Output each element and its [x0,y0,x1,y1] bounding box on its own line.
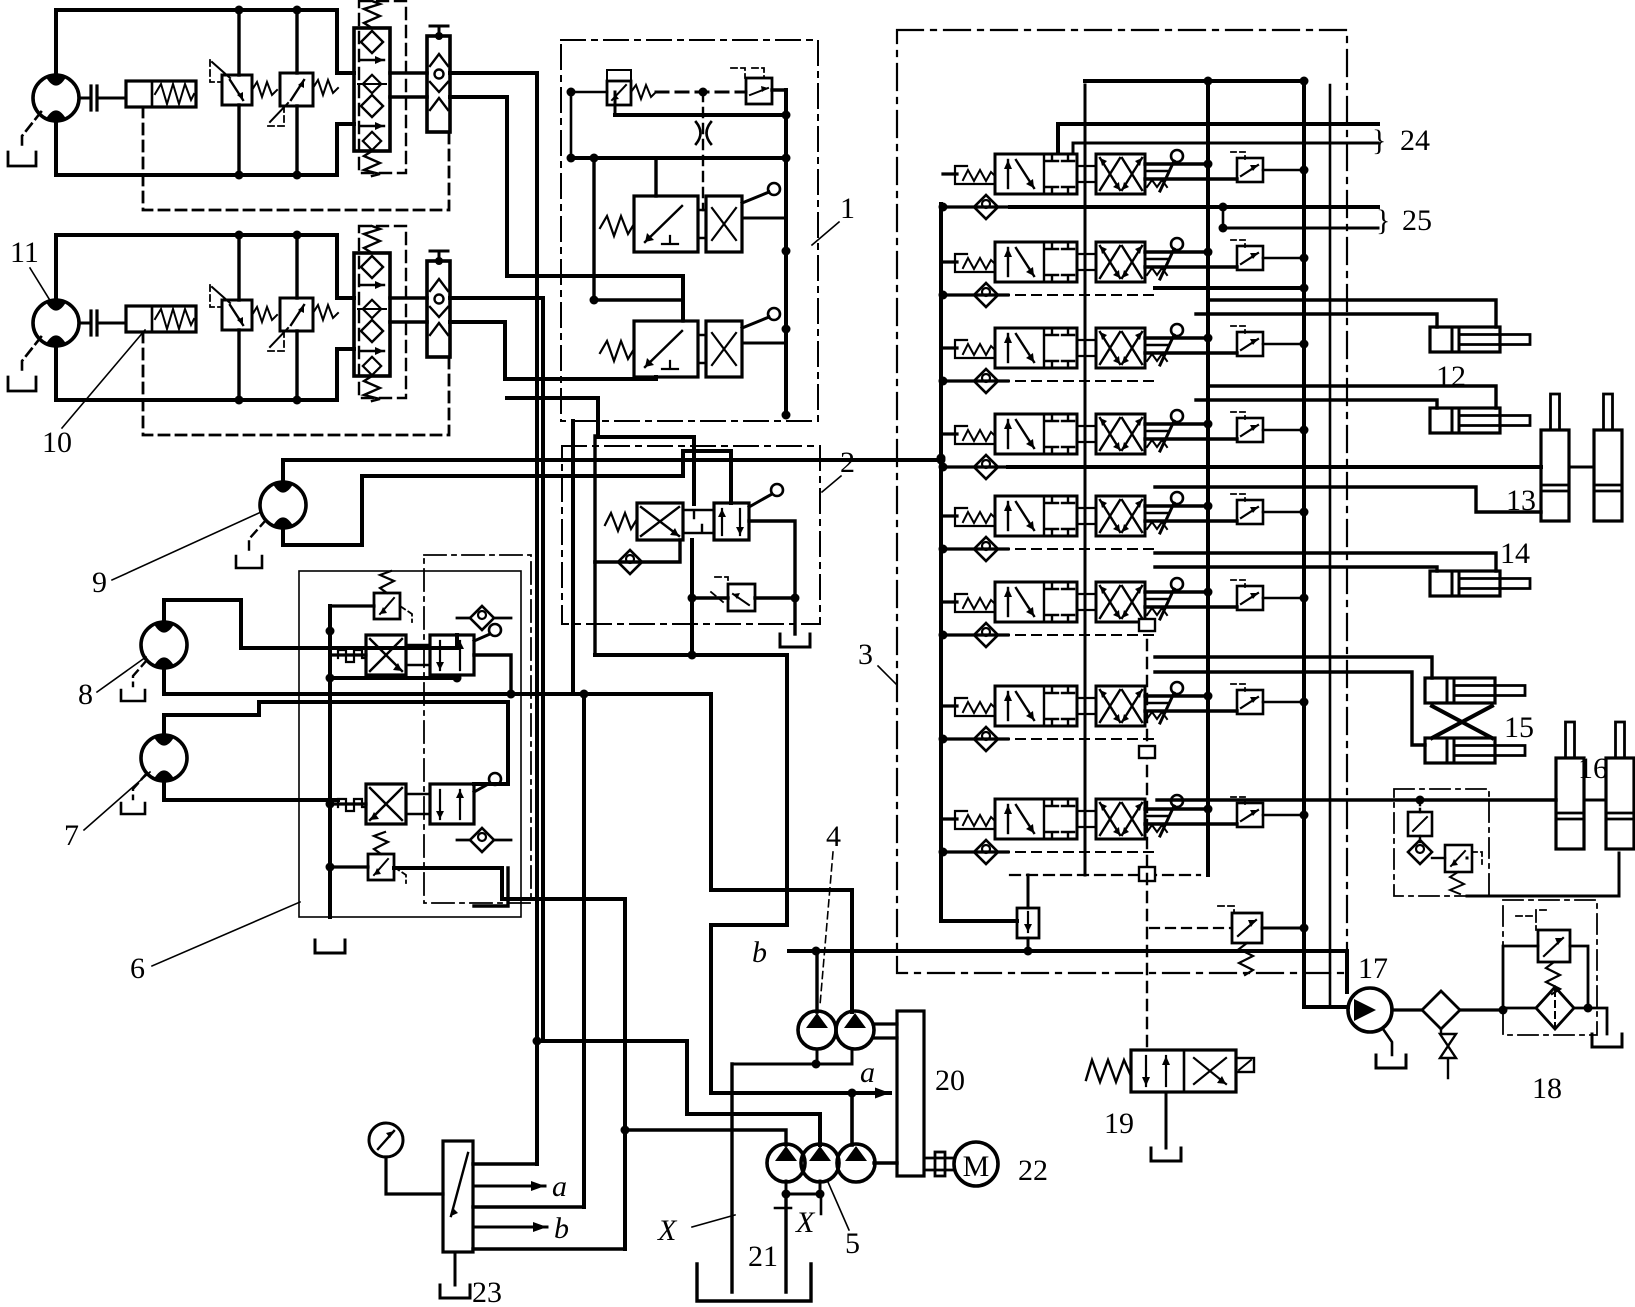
valve 19 spring [1086,1060,1131,1082]
pilot dashed line [656,91,746,94]
svg-text:b: b [554,1212,569,1245]
pump 4b [836,1011,874,1049]
wire B out2 [450,322,656,379]
valve row 6 [939,578,1309,647]
svg-text:22: 22 [1018,1154,1048,1187]
valve row 2 [939,238,1309,307]
motor 9 [260,482,306,528]
svg-text:18: 18 [1532,1072,1562,1105]
leader 2 [822,476,841,492]
wire a to pump5c [850,1093,854,1145]
wire A out1 [450,73,537,1164]
leader 6 [152,902,300,966]
leader 11 [30,268,51,302]
valve1 out wire [474,655,511,694]
motor 9 drain [249,520,266,552]
block 20 [897,1011,924,1176]
check valve loop [595,540,680,562]
svg-text:a: a [860,1056,875,1089]
bank rail left [941,204,1017,921]
wire to cyl13 [1008,465,1541,469]
valve row2 right box [706,321,742,377]
wire 24a [1058,124,1378,152]
valve2 right box [714,503,749,540]
svg-text:12: 12 [1436,360,1466,393]
shutoff valve [1440,1029,1456,1078]
valve2 spring [605,513,637,531]
block6 link mid [330,676,457,680]
leader 1 [812,222,839,245]
valve row 4 [939,410,1309,479]
aux pressure valve [1408,812,1432,836]
block18 relief [1538,930,1570,962]
block6 valve2 right box [430,784,474,824]
pump5 drains [786,1181,820,1194]
cylinder 15a [1425,678,1525,703]
svg-text:}: } [1376,204,1390,237]
leader 3 [878,666,896,684]
svg-text:11: 11 [10,236,39,269]
valve row2 out [742,342,786,345]
filter diamond [1422,991,1460,1029]
wire to pump5 middle [537,1041,820,1145]
block1 right rail [784,90,788,415]
svg-text:X: X [657,1214,678,1247]
relief valve top [607,81,631,105]
valve row1 spring [600,216,634,236]
valve2 mid [683,510,714,533]
svg-text:}: } [1372,124,1386,157]
link 16 [1584,799,1606,802]
cylinder 12a [1430,327,1530,352]
gauge [369,1123,403,1157]
wire reducing out [772,90,786,115]
svg-text:6: 6 [130,952,145,985]
block 1 border [561,40,818,421]
filter out [1460,1008,1503,1011]
pump 4a [798,1011,836,1049]
valve row 3 [939,324,1309,393]
svg-text:4: 4 [826,820,841,853]
svg-text:7: 7 [64,819,79,852]
block6 valve2 X box [366,784,406,824]
leader 4 [820,852,833,1005]
reducing valve top right [746,78,772,104]
block6 relief bottom [368,854,394,880]
block6 relief top [374,593,400,619]
arrow a [473,1185,545,1188]
bank bottom dashed [1010,874,1200,876]
valve row2 spring [600,341,634,361]
tank drop 1 [730,1064,733,1292]
wire B out1 [450,298,543,1041]
block1 bottom wires [507,396,598,400]
valve row 8 [939,795,1309,864]
wire 25b [1223,227,1378,230]
block18 filter [1536,987,1574,1029]
valve2 lever [749,494,772,507]
cylinder 15b [1425,738,1525,763]
relief valve mid-bottom [1232,913,1262,943]
X tick [775,1194,821,1214]
valve2 center drop [690,540,694,657]
wire row2 drop [681,300,684,321]
pilot dashed vertical [702,92,704,210]
valve2 X box [637,503,683,540]
pilot dashed drop [1146,640,1148,1050]
pump 5b [801,1144,839,1182]
cylinder 13a [1541,394,1569,521]
block6 valve1 X box [366,635,406,675]
wire row2 left out [1155,286,1304,290]
svg-text:15: 15 [1504,711,1534,744]
pump 17 drain [1383,1029,1392,1055]
valve row 1 [939,150,1309,219]
svg-text:19: 19 [1104,1107,1134,1140]
svg-text:X: X [795,1206,816,1239]
svg-text:25: 25 [1402,204,1432,237]
motor 9 wires [283,460,941,481]
block6 valve1 spring [338,650,366,662]
thin rail right [1329,85,1332,1007]
pump 5a [767,1144,805,1182]
b supply line [789,949,1347,953]
block6 valve1 wires [330,653,366,656]
wire row2 top [594,158,683,300]
motor 8 drain [133,660,147,686]
leader 5 [828,1182,849,1230]
leader 9 [112,512,261,580]
bank rail inner left [1084,85,1087,875]
bank bottom valve [1017,908,1039,938]
aux block 16 border [1394,789,1489,896]
wire to cyl12a [1208,300,1496,327]
valve23 tank [454,1252,457,1285]
svg-text:10: 10 [42,426,72,459]
scissor cross [1432,706,1492,738]
valve row2 lever [742,317,769,328]
svg-text:20: 20 [935,1064,965,1097]
wire to cyl14 [1155,553,1496,571]
wire A out2 [450,97,683,320]
block 18 border [1503,900,1597,1035]
motor 7 [141,735,187,781]
valve row2 left box [634,321,698,377]
svg-text:3: 3 [858,638,873,671]
motor 8 [141,622,187,668]
block6 rail [328,606,332,917]
bank rail right [1304,81,1348,1007]
motor circuit A [8,1,450,210]
block18 wires [1503,946,1588,1008]
wire 25a [1010,205,1378,209]
block 6 inner border [424,555,531,903]
svg-text:24: 24 [1400,124,1430,157]
wire v584 [582,694,586,1207]
cylinder 16b [1606,722,1634,849]
pump 5c [837,1144,875,1182]
block18 out tank [1588,1008,1607,1034]
aux block wires [1157,798,1556,801]
aux check [1408,840,1432,864]
link 13 [1569,466,1594,469]
block6 valve2 lever [474,783,490,792]
pump5 out [874,1161,897,1164]
block6 valve1 right box [430,635,474,675]
pump4 drains [732,1049,852,1064]
wire collector [615,113,786,117]
cylinder 16a [1556,722,1584,849]
wire row1 drop [654,158,657,196]
valve2 right port [749,521,795,598]
wire v625 [623,899,627,1249]
block6 check2 [470,828,494,852]
svg-text:16: 16 [1578,752,1608,785]
arrow b [473,1226,547,1229]
valve 19 [1131,1050,1236,1092]
wire row1 top [571,156,786,160]
valve23 ports [473,1162,537,1165]
motor circuit B [8,226,450,435]
svg-text:2: 2 [840,446,855,479]
pump 17 input [1345,951,1349,992]
valve 19 drain [1165,1092,1168,1148]
pump 17 [1348,988,1392,1032]
valve row1 right box [706,196,742,252]
gauge stem [386,1157,443,1194]
block 3 border [897,30,1347,973]
valve row 5 [939,492,1309,561]
leader X [692,1215,735,1227]
junction v584 [580,690,589,699]
block 2 border [562,446,820,624]
valve 23 [443,1141,473,1252]
aux relief [1445,845,1472,872]
shaft coupling [924,1158,954,1170]
leader 10 [62,330,145,428]
wire to cyl15 [1155,657,1432,678]
block6 valve2 spring [338,799,366,811]
wire to pump5 left [625,1130,786,1145]
wire v711 upper [711,694,852,1012]
svg-text:14: 14 [1500,537,1530,570]
svg-text:b: b [752,936,767,969]
svg-text:M: M [963,1150,990,1183]
block6 check1 [470,606,494,630]
svg-text:a: a [552,1170,567,1203]
motor M circle [954,1142,998,1186]
tank 21 [697,1264,811,1301]
block6 tank [315,940,345,953]
tank drop 2 [784,1194,787,1292]
leader 7 [84,772,150,830]
block 6 outer border [299,571,521,917]
motor 7 wires [164,702,508,784]
block6 valve2 mid [406,794,430,814]
svg-text:21: 21 [748,1240,778,1273]
wire to cyl12b [1208,386,1496,408]
block6 valve2 wires [330,802,366,805]
cylinder 12b [1430,408,1530,433]
pump4 out [873,1022,897,1025]
tank block2 [793,598,796,634]
svg-text:13: 13 [1506,484,1536,517]
valve2 out wire [474,868,508,906]
motor 8 wires [164,600,457,648]
valve 19 port [1236,1058,1254,1072]
valve row1 lever [742,192,769,203]
cylinder 13b [1594,394,1622,521]
svg-text:1: 1 [840,192,855,225]
block6 valve1 lever [474,634,490,641]
pump 4a feed [815,951,818,1012]
svg-text:8: 8 [78,678,93,711]
pump 17 out [1392,1008,1422,1011]
block6 relief top wire [330,604,374,607]
valve row 7 [939,682,1309,751]
wire 16 bottom [1467,853,1619,896]
svg-text:17: 17 [1358,952,1388,985]
motor 7 drain [133,773,147,799]
cylinder 14 [1430,571,1530,596]
bank top wire [1085,79,1304,83]
wire block2 bottom [595,655,787,1093]
orifice [696,122,711,144]
valve row1 left box [634,196,698,252]
a supply line [711,1091,890,1095]
wire v573 [571,421,575,694]
wire 24b [1073,143,1378,152]
leader 8 [97,657,146,692]
svg-text:9: 9 [92,566,107,599]
svg-text:23: 23 [472,1276,502,1307]
bank rail center [1206,81,1210,875]
valve row1 out [742,217,786,220]
block6 valve1 mid [406,645,430,665]
relief valve 2 [728,584,755,611]
svg-text:5: 5 [845,1227,860,1260]
